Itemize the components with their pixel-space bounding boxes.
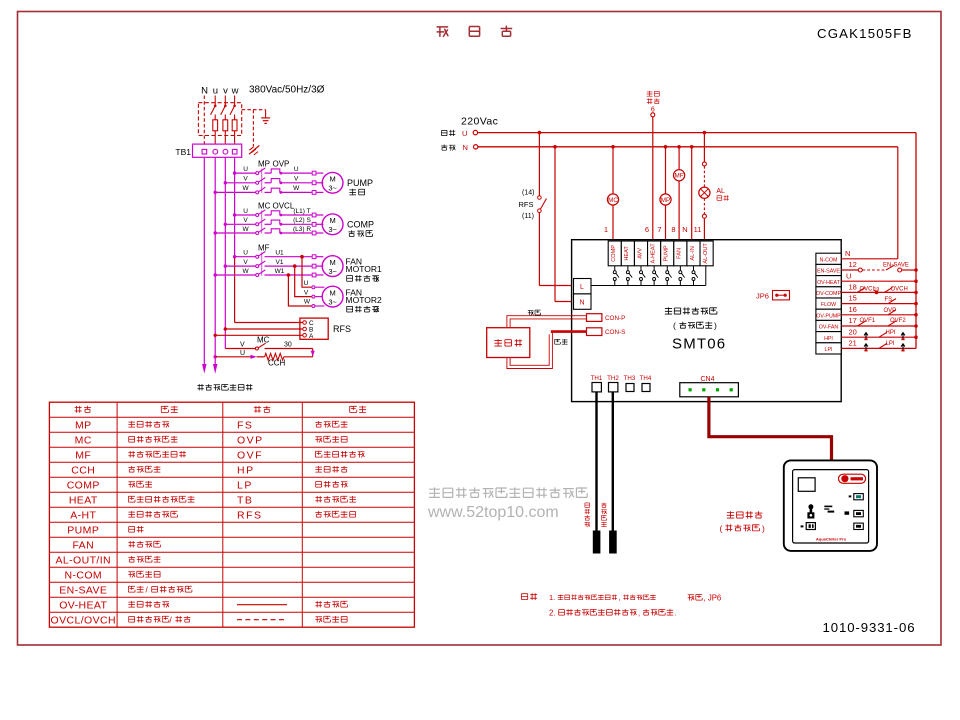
svg-text:TH3: TH3	[624, 375, 636, 382]
wire transformer secondary	[507, 332, 553, 369]
svg-text:V: V	[243, 176, 248, 183]
wire OV-HEAT	[841, 280, 916, 282]
svg-text:MC: MC	[608, 197, 618, 204]
svg-text:(11): (11)	[522, 213, 534, 220]
svg-text:L: L	[580, 284, 584, 291]
svg-text:www.52top10.com: www.52top10.com	[427, 504, 559, 521]
svg-text:FLOW: FLOW	[821, 302, 836, 308]
svg-text:MOTOR2: MOTOR2	[346, 295, 382, 305]
svg-text:OVP: OVP	[273, 160, 290, 169]
svg-text:2.: 2.	[549, 609, 556, 618]
svg-text:3~: 3~	[328, 297, 337, 306]
svg-text:MC: MC	[257, 335, 270, 344]
svg-text:HEAT: HEAT	[69, 494, 98, 506]
svg-text:AquaChiller Pro: AquaChiller Pro	[816, 537, 847, 542]
svg-text:V: V	[243, 259, 248, 266]
coil MC	[611, 145, 615, 149]
svg-text:AL-IN: AL-IN	[690, 246, 696, 260]
svg-text:OV-COMP: OV-COMP	[816, 291, 841, 297]
svg-text:): )	[714, 321, 717, 331]
phase monitor RFS box	[300, 318, 328, 339]
svg-text:(: (	[673, 321, 676, 331]
board relay contacts	[614, 266, 616, 271]
label white wire	[528, 310, 534, 315]
board label line1	[665, 307, 672, 314]
wire w continuation to RFS C	[234, 257, 236, 323]
svg-text:3~: 3~	[328, 184, 337, 193]
label black wire	[555, 339, 561, 344]
svg-text:1.: 1.	[549, 593, 555, 602]
sensor label 2	[601, 503, 606, 508]
svg-text:A: A	[309, 333, 314, 340]
svg-text:M: M	[329, 288, 335, 297]
svg-text:V: V	[294, 176, 299, 183]
svg-text:AL-OUT: AL-OUT	[703, 243, 709, 264]
svg-text:U: U	[240, 350, 245, 357]
transformer box	[487, 328, 530, 358]
svg-text:3~: 3~	[328, 225, 337, 234]
svg-text:N-COM: N-COM	[64, 569, 102, 581]
svg-text:SMT06: SMT06	[672, 336, 726, 353]
svg-text:OVP: OVP	[237, 434, 264, 446]
svg-text:OVF1: OVF1	[860, 318, 876, 324]
svg-text:TB: TB	[237, 494, 253, 506]
svg-text:12: 12	[849, 260, 857, 269]
svg-text:11: 11	[694, 225, 702, 234]
svg-text:(L3) R: (L3) R	[293, 226, 311, 233]
svg-text:N: N	[845, 249, 850, 258]
fuse-switch phase w	[234, 96, 236, 106]
svg-text:V1: V1	[276, 259, 284, 266]
wire 220V U	[478, 132, 916, 134]
operation panel inner	[793, 470, 869, 543]
svg-text:OVF: OVF	[237, 449, 263, 461]
panel cable	[709, 397, 832, 461]
svg-text:CCH: CCH	[268, 358, 286, 367]
svg-text:RFS: RFS	[237, 509, 263, 521]
svg-text:W: W	[243, 268, 250, 275]
wire fan2 U	[302, 257, 312, 288]
svg-text:A-HEAT: A-HEAT	[650, 243, 656, 264]
svg-text:CN4: CN4	[700, 376, 714, 383]
wire 220V N	[478, 146, 898, 148]
svg-text:MP: MP	[258, 160, 270, 169]
node fan branch W	[287, 273, 291, 277]
wire v phase down	[224, 157, 226, 348]
svg-text:17: 17	[849, 316, 857, 325]
svg-text:AL: AL	[716, 188, 725, 195]
wire RFS B	[224, 327, 227, 330]
svg-text:v: v	[223, 86, 228, 97]
svg-text:380Vac/50Hz/3Ø: 380Vac/50Hz/3Ø	[249, 85, 325, 96]
svg-text:M: M	[329, 175, 335, 184]
svg-text:CON-S: CON-S	[605, 329, 625, 336]
node N feed	[553, 145, 557, 149]
fan2 terminals	[312, 286, 315, 289]
wire u phase down	[214, 157, 216, 365]
svg-text:EN-SAVE: EN-SAVE	[883, 263, 909, 269]
heater feed label	[647, 91, 653, 97]
wire N to AL-IN	[690, 145, 694, 149]
svg-text:LP: LP	[237, 479, 253, 491]
table header	[75, 406, 82, 413]
table grid	[49, 402, 414, 627]
coil MP	[664, 145, 668, 149]
svg-text:HPI: HPI	[886, 330, 896, 336]
svg-text:6: 6	[651, 106, 655, 113]
svg-text:2: 2	[374, 305, 379, 314]
connector CON-S	[587, 328, 602, 336]
svg-text:TB1: TB1	[175, 147, 191, 157]
panel key icon	[808, 504, 813, 509]
svg-text:8: 8	[671, 225, 675, 234]
svg-text:,: ,	[638, 609, 640, 618]
svg-text:U: U	[462, 129, 467, 138]
note label	[522, 594, 528, 600]
svg-text:LPI: LPI	[886, 341, 895, 347]
heater feed wire	[651, 113, 655, 117]
earth wire to PE (dashed)	[252, 110, 254, 147]
svg-text:1010-9331-06: 1010-9331-06	[823, 620, 916, 635]
svg-text:.: .	[675, 609, 677, 618]
svg-text:COMP: COMP	[67, 479, 100, 491]
svg-text:CGAK1505FB: CGAK1505FB	[817, 26, 913, 41]
svg-text:N: N	[682, 225, 687, 234]
board output terminal strip	[608, 241, 621, 266]
svg-text:EN-SAVE: EN-SAVE	[817, 269, 840, 275]
wire fan2 W	[288, 275, 311, 306]
svg-text:W: W	[304, 299, 311, 306]
svg-text:COMP: COMP	[347, 220, 374, 230]
svg-text:AVV: AVV	[637, 248, 643, 259]
svg-text:MP: MP	[75, 419, 92, 431]
board input terminal strip	[816, 253, 841, 264]
coil MF	[677, 145, 681, 149]
panel mid icons	[824, 506, 832, 508]
svg-text:M: M	[329, 216, 335, 225]
svg-text:OV-HEAT: OV-HEAT	[817, 280, 841, 286]
label live wire	[442, 130, 448, 135]
wire MC to CCH	[312, 349, 314, 357]
arrow to controller L	[213, 364, 217, 374]
fuse-switch phase u	[214, 96, 216, 106]
operation panel outer	[784, 460, 877, 551]
svg-text:HPI: HPI	[824, 336, 833, 342]
svg-text:OVP: OVP	[884, 308, 897, 314]
svg-text:19: 19	[874, 287, 880, 293]
terminal block TB1	[193, 144, 242, 157]
PE symbol at TB1	[249, 145, 259, 154]
panel button 1	[854, 494, 864, 500]
wire fan2 V	[295, 266, 312, 297]
svg-text:20: 20	[849, 327, 857, 336]
table row factory wiring	[237, 604, 287, 606]
svg-text:OVCH: OVCH	[891, 286, 908, 292]
svg-text:EN-SAVE: EN-SAVE	[59, 584, 107, 596]
wire N to board	[554, 147, 556, 302]
label neutral wire	[441, 145, 447, 151]
svg-text:, JP6: , JP6	[704, 594, 722, 603]
svg-text:LPI: LPI	[825, 347, 833, 353]
svg-text:U: U	[243, 166, 248, 173]
svg-text:OVCL/OVCH: OVCL/OVCH	[51, 614, 116, 626]
svg-text:TH1: TH1	[591, 375, 603, 382]
wire N phase down	[203, 157, 205, 365]
svg-text:MOTOR1: MOTOR1	[346, 264, 382, 274]
sensor wire TH2	[612, 392, 614, 531]
svg-text:(L2) S: (L2) S	[293, 217, 311, 224]
svg-text:A-HT: A-HT	[70, 509, 96, 521]
svg-text:FS: FS	[885, 297, 893, 303]
svg-text:(: (	[720, 523, 723, 533]
contactor MC + overload OVCL + compressor feeder	[233, 213, 236, 216]
wire N (dashed) into TB1	[203, 96, 205, 145]
svg-text:15: 15	[849, 294, 857, 303]
alarm lamp AL	[703, 131, 707, 135]
svg-text:U1: U1	[275, 250, 284, 257]
node fan branch U	[300, 255, 304, 259]
sensor wire TH1	[595, 392, 597, 531]
panel button 2	[854, 510, 864, 516]
svg-text:MP: MP	[661, 197, 670, 204]
svg-text:MC: MC	[258, 202, 271, 211]
svg-text:N: N	[463, 143, 468, 152]
svg-text:30: 30	[284, 342, 292, 349]
safety bus vertical	[915, 133, 917, 349]
watermark line 1	[429, 487, 440, 498]
svg-text:OVCL: OVCL	[273, 202, 295, 211]
panel display	[798, 478, 815, 492]
label operation panel	[727, 511, 734, 518]
panel power pill	[839, 474, 866, 483]
svg-text:W: W	[243, 226, 250, 233]
wire N-COM	[841, 258, 898, 260]
svg-text:JP6: JP6	[756, 292, 769, 301]
svg-text:FAN: FAN	[72, 539, 94, 551]
svg-text:CCH: CCH	[71, 464, 95, 476]
svg-text:PUMP: PUMP	[67, 524, 99, 536]
contactor MF + fan feeder	[233, 255, 236, 258]
wire w phase down	[234, 157, 236, 256]
svg-text:TH4: TH4	[640, 375, 652, 382]
svg-text:1: 1	[374, 274, 379, 283]
svg-text:OVF2: OVF2	[890, 318, 906, 324]
fuse-switch phase v	[224, 96, 226, 106]
svg-text:(14): (14)	[522, 190, 534, 197]
svg-text:6: 6	[645, 225, 649, 234]
svg-text:M: M	[329, 258, 335, 267]
wire transformer primary	[507, 316, 587, 328]
svg-text:PUMP: PUMP	[664, 245, 670, 261]
svg-text:U: U	[243, 250, 248, 257]
label 到微电脑控制器	[197, 384, 203, 390]
svg-text:RFS: RFS	[519, 200, 534, 209]
svg-text:W: W	[293, 185, 300, 192]
svg-text:OV-HEAT: OV-HEAT	[59, 599, 107, 611]
svg-text:U: U	[846, 271, 851, 280]
faint watermark	[594, 288, 606, 300]
svg-text:TH2: TH2	[607, 375, 619, 382]
svg-text:OV-FAN: OV-FAN	[819, 325, 839, 331]
sensor label 1	[585, 503, 590, 508]
svg-text:RFS: RFS	[333, 324, 351, 334]
node U-L feed	[538, 131, 542, 135]
svg-text:V: V	[243, 217, 248, 224]
motor FAN MOTOR2	[322, 286, 343, 307]
relay common bus	[591, 285, 706, 287]
svg-text:OV-PUMP: OV-PUMP	[816, 313, 841, 319]
table row field wiring	[237, 619, 287, 621]
svg-text:,: ,	[619, 595, 621, 602]
contactor MP + overload OVP + pump feeder	[233, 171, 236, 174]
wire RFS A	[214, 334, 217, 337]
controller board outline	[572, 240, 842, 402]
svg-text:COMP: COMP	[611, 245, 617, 262]
svg-text:220Vac: 220Vac	[461, 116, 498, 128]
svg-text:u: u	[213, 86, 218, 97]
svg-text:18: 18	[849, 283, 857, 292]
node fan branch V	[293, 264, 297, 268]
svg-text:3~: 3~	[328, 267, 337, 276]
svg-text:N: N	[579, 300, 584, 307]
svg-text:U: U	[304, 280, 309, 287]
contact RFS 14-11	[538, 133, 540, 196]
svg-text:AL-OUT/IN: AL-OUT/IN	[55, 554, 111, 566]
svg-text:U: U	[294, 166, 299, 173]
panel button 3	[854, 523, 864, 529]
svg-text:MF: MF	[258, 243, 270, 252]
svg-text:V: V	[240, 342, 245, 349]
svg-text:FS: FS	[237, 419, 253, 431]
svg-text:(L1) T: (L1) T	[293, 208, 310, 215]
board terminal L	[574, 279, 592, 294]
title 线路图	[437, 27, 449, 37]
svg-text:U: U	[243, 208, 248, 215]
svg-text:MF: MF	[75, 449, 91, 461]
svg-text:w: w	[231, 86, 239, 97]
svg-text:MC: MC	[75, 434, 92, 446]
svg-text:FAN: FAN	[677, 248, 683, 259]
RFS terminals C B A	[303, 321, 307, 325]
earth connection (top)	[242, 109, 266, 111]
svg-text:1: 1	[604, 225, 608, 234]
svg-text:V: V	[304, 289, 309, 296]
fuse-switch box (dashed)	[198, 103, 241, 136]
svg-text:PUMP: PUMP	[347, 178, 373, 188]
svg-text:): )	[762, 523, 765, 533]
svg-text:CON-P: CON-P	[605, 315, 625, 322]
connector CON-P	[587, 314, 602, 322]
svg-text:MF: MF	[675, 173, 684, 180]
svg-text:N: N	[201, 86, 208, 97]
svg-text:HP: HP	[237, 464, 255, 476]
svg-text:HEAT: HEAT	[624, 246, 630, 261]
svg-text:N-COM: N-COM	[820, 257, 838, 263]
svg-text:W1: W1	[275, 268, 285, 275]
svg-text:W: W	[243, 185, 250, 192]
wire RFS C	[235, 322, 303, 324]
svg-text:16: 16	[849, 305, 857, 314]
arrow to controller N	[202, 364, 206, 374]
board terminal N	[574, 294, 592, 309]
svg-text:21: 21	[849, 339, 857, 348]
svg-text:7: 7	[657, 225, 661, 234]
